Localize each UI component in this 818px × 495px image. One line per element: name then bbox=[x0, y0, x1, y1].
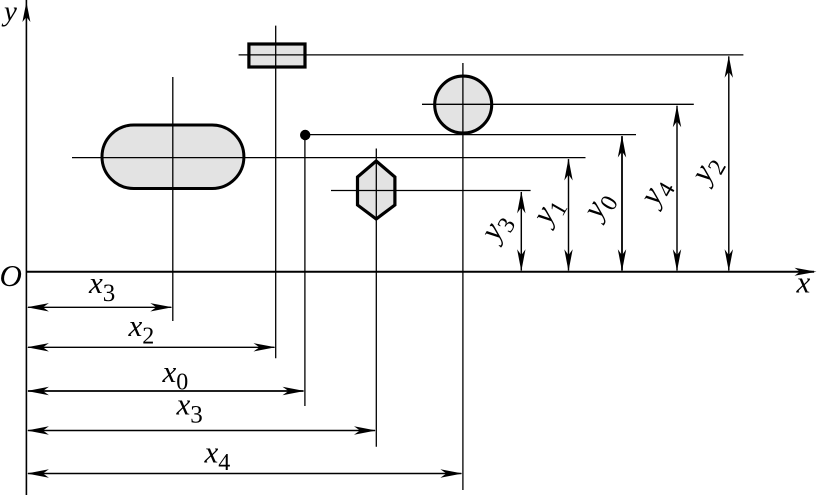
dimension y1 label bbox=[523, 189, 573, 235]
rectangle vertical centerline bbox=[275, 26, 277, 359]
dimension x4 line bbox=[27, 469, 463, 477]
svg-text:y: y bbox=[1, 0, 17, 28]
circle feature bbox=[435, 76, 492, 133]
dimension x2 line bbox=[27, 343, 276, 351]
dot horizontal line bbox=[305, 134, 636, 136]
dimension y0 line bbox=[618, 136, 626, 272]
x axis bbox=[26, 268, 816, 276]
dimension y2 line bbox=[725, 56, 733, 271]
dimension y4 label bbox=[631, 170, 681, 216]
hexagon feature bbox=[358, 161, 395, 219]
svg-text:x: x bbox=[796, 265, 811, 300]
svg-text:O: O bbox=[0, 258, 22, 293]
dimension y3 label bbox=[471, 206, 521, 252]
dimension y4 line bbox=[673, 105, 681, 271]
dimension y0 label bbox=[574, 184, 624, 230]
small rectangle feature bbox=[249, 44, 305, 67]
dot vertical line bbox=[304, 135, 306, 406]
circle horizontal centerline bbox=[422, 103, 694, 105]
dimension x3 (second) line bbox=[27, 426, 376, 434]
obround slot feature bbox=[102, 125, 244, 189]
hexagon vertical centerline bbox=[375, 149, 377, 447]
point feature dot bbox=[300, 130, 310, 140]
dimension y2 label bbox=[682, 148, 732, 194]
dimension x3 (first) line bbox=[27, 303, 172, 311]
rectangle horizontal centerline bbox=[239, 54, 744, 56]
dimension y1 line bbox=[564, 159, 572, 272]
obround vertical centerline bbox=[172, 77, 174, 321]
dimension y3 line bbox=[517, 191, 525, 271]
y axis bbox=[22, 0, 30, 495]
circle vertical centerline bbox=[462, 63, 464, 490]
obround horizontal centerline bbox=[72, 157, 586, 159]
dimension x0 line bbox=[27, 387, 305, 395]
hexagon horizontal centerline bbox=[331, 190, 531, 192]
